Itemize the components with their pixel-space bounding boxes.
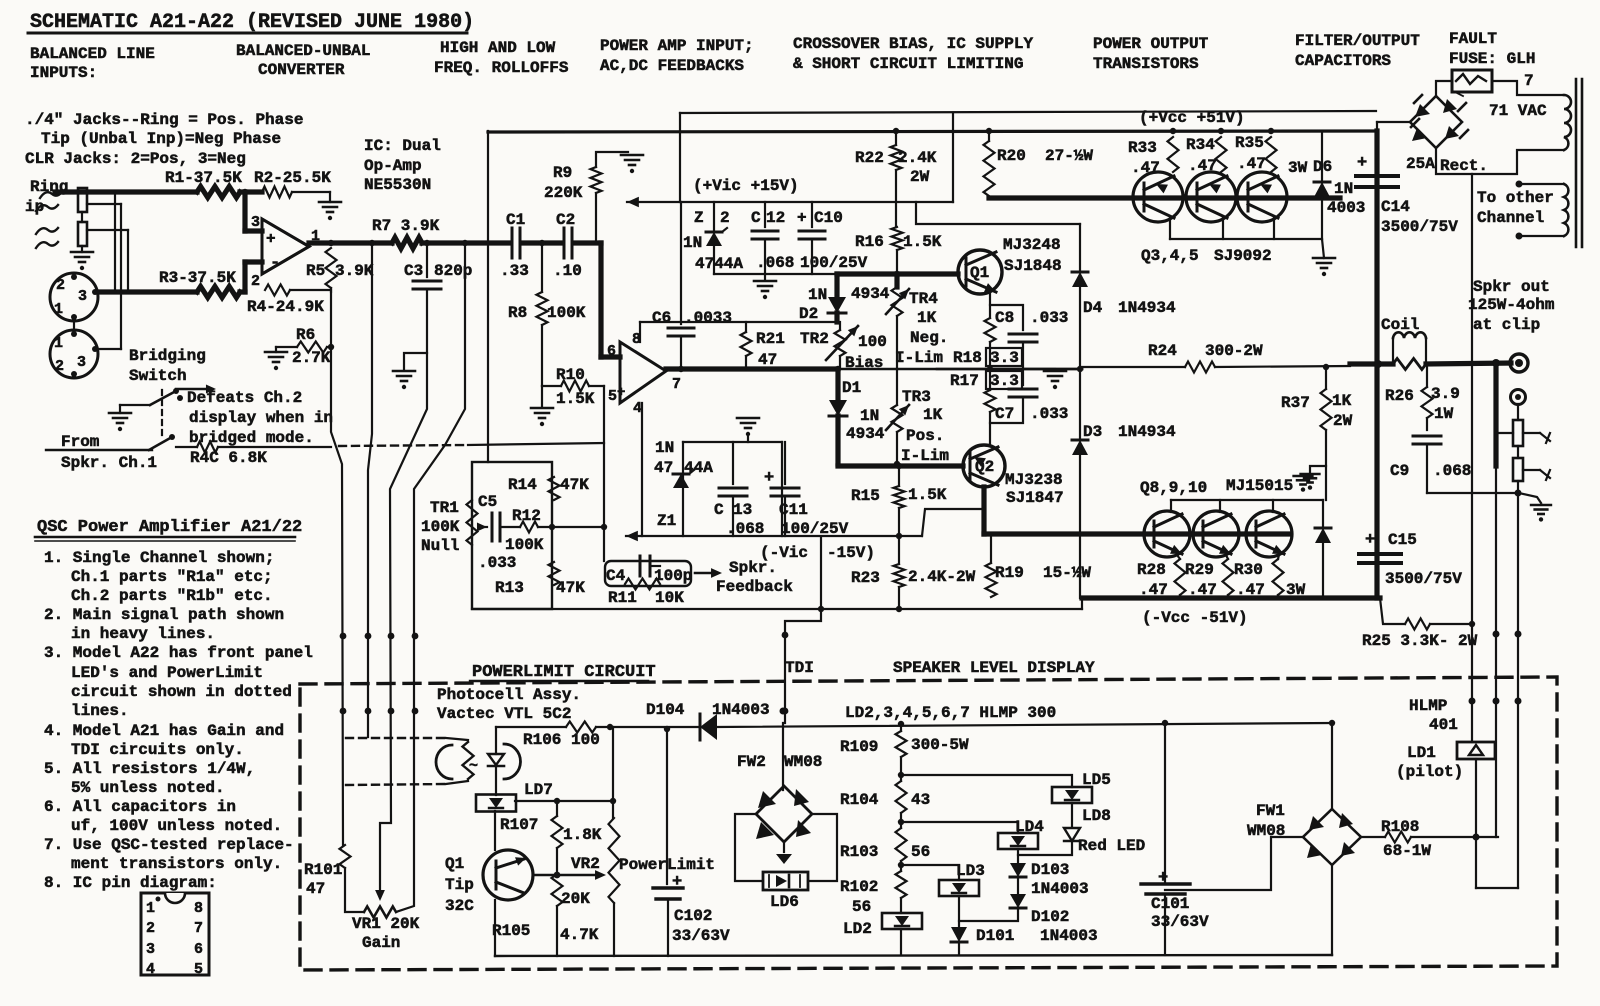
svg-text:C3: C3: [404, 262, 423, 280]
svg-text:R34: R34: [1186, 136, 1215, 154]
svg-text:LD3: LD3: [956, 862, 985, 880]
svg-text:R12: R12: [512, 507, 541, 525]
svg-text:5% unless noted.: 5% unless noted.: [71, 779, 225, 797]
svg-text:C7: C7: [995, 405, 1014, 423]
svg-text:TR4: TR4: [909, 290, 938, 308]
svg-text:R22: R22: [855, 149, 884, 167]
svg-text:R9: R9: [553, 164, 572, 182]
svg-text:C5: C5: [478, 493, 497, 511]
svg-text:300-2W: 300-2W: [1205, 342, 1263, 360]
svg-text:15-½W: 15-½W: [1043, 564, 1091, 582]
svg-text:Neg.: Neg.: [910, 329, 948, 347]
svg-text:at clip: at clip: [1473, 316, 1540, 334]
svg-text:2W: 2W: [1333, 412, 1353, 430]
svg-text:R15: R15: [851, 487, 880, 505]
svg-text:CAPACITORS: CAPACITORS: [1295, 52, 1391, 70]
svg-text:display when in: display when in: [189, 409, 333, 427]
svg-text:R4-24.9K: R4-24.9K: [247, 298, 324, 316]
svg-text:+: +: [764, 469, 774, 488]
svg-text:in heavy lines.: in heavy lines.: [71, 625, 215, 643]
svg-text:Switch: Switch: [129, 367, 187, 385]
svg-text:CROSSOVER BIAS, IC SUPPLY: CROSSOVER BIAS, IC SUPPLY: [793, 35, 1033, 53]
svg-text:R24: R24: [1148, 342, 1177, 360]
svg-text:R20: R20: [997, 147, 1026, 165]
svg-text:TR1: TR1: [430, 499, 459, 517]
svg-text:27-½W: 27-½W: [1045, 147, 1093, 165]
svg-text:100K: 100K: [505, 536, 544, 554]
svg-text:TDI: TDI: [785, 659, 814, 677]
svg-text:Feedback: Feedback: [716, 578, 793, 596]
svg-text:D6: D6: [1313, 158, 1332, 176]
svg-text:.033: .033: [1030, 309, 1068, 327]
svg-text:68-1W: 68-1W: [1383, 842, 1431, 860]
svg-text:.033: .033: [478, 554, 516, 572]
svg-text:3: 3: [146, 941, 155, 958]
svg-text:R14: R14: [508, 476, 537, 494]
svg-text:R21: R21: [756, 330, 785, 348]
svg-text:Bias: Bias: [845, 354, 883, 372]
svg-text:3: 3: [251, 214, 260, 231]
svg-text:MJ15015: MJ15015: [1226, 477, 1293, 495]
svg-text:.47: .47: [1237, 155, 1266, 173]
svg-text:Op-Amp: Op-Amp: [364, 157, 422, 175]
svg-text:Q3,4,5: Q3,4,5: [1141, 247, 1199, 265]
svg-text:13: 13: [733, 501, 752, 519]
svg-text:1N4003: 1N4003: [1031, 880, 1089, 898]
svg-text:1N4003: 1N4003: [1040, 927, 1098, 945]
svg-text:R104: R104: [840, 791, 879, 809]
svg-text:R4C 6.8K: R4C 6.8K: [190, 449, 267, 467]
svg-text:(+Vcc +51V): (+Vcc +51V): [1139, 109, 1245, 127]
svg-text:4003: 4003: [1327, 199, 1365, 217]
svg-text:Bridging: Bridging: [129, 347, 206, 365]
svg-text:8: 8: [194, 900, 203, 917]
svg-text:R6: R6: [296, 326, 315, 344]
svg-text:.33: .33: [500, 262, 529, 280]
svg-text:HLMP: HLMP: [1409, 697, 1447, 715]
svg-text:7. Use QSC-tested replace-: 7. Use QSC-tested replace-: [44, 836, 294, 854]
svg-text:71 VAC: 71 VAC: [1489, 102, 1547, 120]
svg-text:~: ~: [469, 758, 478, 775]
svg-text:C2: C2: [556, 211, 575, 229]
svg-text:FREQ. ROLLOFFS: FREQ. ROLLOFFS: [434, 59, 569, 77]
svg-text:47K: 47K: [556, 579, 585, 597]
svg-text:Q8,9,10: Q8,9,10: [1140, 479, 1207, 497]
svg-text:AC,DC FEEDBACKS: AC,DC FEEDBACKS: [600, 57, 744, 75]
svg-text:C1: C1: [506, 211, 525, 229]
svg-text:+: +: [672, 873, 682, 892]
svg-text:Spkr out: Spkr out: [1473, 278, 1550, 296]
svg-text:D3: D3: [1083, 423, 1102, 441]
svg-text:FW1: FW1: [1256, 802, 1285, 820]
svg-text:.068: .068: [756, 254, 794, 272]
svg-text:Photocell Assy.: Photocell Assy.: [437, 686, 581, 704]
svg-text:2: 2: [146, 920, 155, 937]
svg-text:TRANSISTORS: TRANSISTORS: [1093, 55, 1199, 73]
svg-text:+: +: [797, 209, 807, 227]
svg-text:4: 4: [633, 400, 642, 417]
svg-text:R18: R18: [953, 349, 982, 367]
svg-text:R10: R10: [556, 366, 585, 384]
svg-text:1: 1: [146, 900, 155, 917]
svg-text:.033: .033: [1030, 405, 1068, 423]
svg-text:R2-25.5K: R2-25.5K: [254, 169, 331, 187]
svg-text:3.9K: 3.9K: [335, 262, 374, 280]
svg-text:R102: R102: [840, 878, 878, 896]
svg-text:Ch.2 parts "R1b" etc.: Ch.2 parts "R1b" etc.: [71, 587, 273, 605]
svg-text:LD2: LD2: [843, 920, 872, 938]
svg-text:47: 47: [654, 459, 673, 477]
svg-text:5. All resistors 1/4W,: 5. All resistors 1/4W,: [44, 760, 255, 778]
svg-text:R33: R33: [1128, 139, 1157, 157]
svg-text:POWER OUTPUT: POWER OUTPUT: [1093, 35, 1209, 53]
svg-text:+: +: [617, 385, 625, 401]
svg-text:33/63V: 33/63V: [672, 927, 730, 945]
svg-text:100K: 100K: [547, 304, 586, 322]
svg-text:SJ9092: SJ9092: [1214, 247, 1272, 265]
svg-text:Pos.: Pos.: [906, 427, 944, 445]
svg-text:7: 7: [194, 920, 203, 937]
svg-text:R3-37.5K: R3-37.5K: [159, 269, 236, 287]
svg-text:1.5K: 1.5K: [903, 233, 942, 251]
svg-text:+: +: [266, 230, 276, 248]
svg-text:4934: 4934: [851, 285, 890, 303]
svg-text:R103: R103: [840, 843, 878, 861]
svg-text:VR2: VR2: [571, 855, 600, 873]
svg-text:2.4K: 2.4K: [898, 149, 937, 167]
svg-text:.10: .10: [553, 262, 582, 280]
svg-text:1N: 1N: [1334, 180, 1353, 198]
svg-text:D4: D4: [1083, 299, 1103, 317]
svg-text:LD2,3,4,5,6,7 HLMP 300: LD2,3,4,5,6,7 HLMP 300: [845, 704, 1056, 722]
svg-text:TR2: TR2: [800, 330, 829, 348]
svg-text:56: 56: [852, 898, 871, 916]
svg-text:D104: D104: [646, 701, 685, 719]
svg-text:2: 2: [56, 277, 65, 294]
svg-text:C11: C11: [779, 501, 808, 519]
svg-text:1. Single Channel shown;: 1. Single Channel shown;: [44, 549, 274, 567]
svg-text:D2: D2: [799, 305, 818, 323]
svg-text:Q1: Q1: [970, 264, 989, 282]
svg-text:3.3: 3.3: [990, 349, 1019, 367]
svg-text:-: -: [270, 254, 280, 273]
svg-text:300-5W: 300-5W: [911, 736, 969, 754]
svg-text:Spkr. Ch.1: Spkr. Ch.1: [61, 454, 157, 472]
svg-text:1N: 1N: [655, 439, 674, 457]
svg-text:C: C: [751, 209, 761, 227]
svg-text:1.5K: 1.5K: [556, 390, 595, 408]
svg-text:(+Vic +15V): (+Vic +15V): [693, 177, 799, 195]
svg-text:125W-4ohm: 125W-4ohm: [1468, 296, 1555, 314]
svg-text:R13: R13: [495, 579, 524, 597]
svg-text:POWERLIMIT CIRCUIT: POWERLIMIT CIRCUIT: [472, 663, 656, 682]
svg-text:C102: C102: [674, 907, 712, 925]
svg-text:2.4K-2W: 2.4K-2W: [908, 568, 976, 586]
svg-text:47: 47: [306, 880, 325, 898]
svg-text:820p: 820p: [434, 262, 472, 280]
svg-text:R106 100: R106 100: [523, 731, 600, 749]
svg-text:FILTER/OUTPUT: FILTER/OUTPUT: [1295, 32, 1420, 50]
svg-text:43: 43: [911, 791, 930, 809]
svg-text:6. All capacitors in: 6. All capacitors in: [44, 798, 236, 816]
svg-text:2: 2: [55, 358, 64, 375]
svg-text:100K: 100K: [421, 518, 460, 536]
svg-text:Z: Z: [694, 209, 704, 227]
svg-text:MJ3238: MJ3238: [1005, 471, 1063, 489]
svg-text:100/25V: 100/25V: [800, 254, 868, 272]
svg-text:1N4934: 1N4934: [1118, 423, 1176, 441]
svg-text:Tip: Tip: [445, 876, 474, 894]
svg-text:+: +: [1365, 531, 1375, 550]
svg-text:SJ1847: SJ1847: [1006, 489, 1064, 507]
svg-text:FAULT: FAULT: [1449, 30, 1497, 48]
svg-text:C14: C14: [1381, 198, 1410, 216]
svg-text:R30: R30: [1234, 561, 1263, 579]
svg-text:R5: R5: [306, 262, 325, 280]
svg-text:5: 5: [194, 961, 203, 978]
svg-text:4744A: 4744A: [695, 255, 743, 273]
svg-text:R28: R28: [1137, 561, 1166, 579]
svg-text:R25 3.3K- 2W: R25 3.3K- 2W: [1362, 632, 1478, 650]
svg-text:SPEAKER LEVEL DISPLAY: SPEAKER LEVEL DISPLAY: [893, 659, 1095, 677]
svg-text:3500/75V: 3500/75V: [1385, 570, 1462, 588]
svg-text:ment transistors only.: ment transistors only.: [71, 855, 282, 873]
svg-text:R107: R107: [500, 816, 538, 834]
svg-text:3: 3: [77, 354, 86, 371]
svg-text:I-Lim: I-Lim: [895, 349, 943, 367]
svg-text:WM08: WM08: [784, 753, 822, 771]
svg-text:C10: C10: [814, 209, 843, 227]
svg-text:INPUTS:: INPUTS:: [30, 64, 97, 82]
svg-text:LD4: LD4: [1015, 818, 1044, 836]
svg-text:2: 2: [251, 273, 260, 290]
svg-text:1K: 1K: [1332, 392, 1352, 410]
svg-text:3500/75V: 3500/75V: [1381, 218, 1458, 236]
svg-text:Null: Null: [421, 537, 459, 555]
svg-text:47K: 47K: [560, 476, 589, 494]
svg-text:R19: R19: [995, 564, 1024, 582]
svg-text:lines.: lines.: [71, 702, 129, 720]
svg-text:1.8K: 1.8K: [563, 826, 602, 844]
svg-text:3W: 3W: [1288, 159, 1308, 177]
svg-text:R37: R37: [1281, 394, 1310, 412]
svg-text:.0033: .0033: [684, 309, 732, 327]
svg-text:./4" Jacks--Ring = Pos. Phase: ./4" Jacks--Ring = Pos. Phase: [25, 111, 303, 129]
svg-text:I-Lim: I-Lim: [901, 447, 949, 465]
svg-text:Red LED: Red LED: [1078, 837, 1145, 855]
svg-text:Gain: Gain: [362, 934, 400, 952]
svg-text:uf, 100V unless noted.: uf, 100V unless noted.: [71, 817, 282, 835]
svg-text:220K: 220K: [544, 184, 583, 202]
svg-text:R23: R23: [851, 569, 880, 587]
svg-text:56: 56: [911, 843, 930, 861]
svg-text:1N: 1N: [808, 286, 827, 304]
svg-text:C8: C8: [995, 309, 1014, 327]
svg-text:33/63V: 33/63V: [1151, 913, 1209, 931]
svg-text:25A: 25A: [1406, 155, 1435, 173]
svg-text:32C: 32C: [445, 897, 474, 915]
svg-text:1: 1: [54, 301, 63, 318]
svg-text:Coil: Coil: [1381, 316, 1419, 334]
svg-text:IC: Dual: IC: Dual: [364, 137, 441, 155]
svg-text:10K: 10K: [655, 589, 684, 607]
svg-text:4934: 4934: [846, 425, 885, 443]
svg-text:-15V): -15V): [827, 544, 875, 562]
svg-text:4.7K: 4.7K: [560, 926, 599, 944]
svg-text:TR3: TR3: [902, 388, 931, 406]
svg-text:HIGH AND LOW: HIGH AND LOW: [440, 39, 556, 57]
svg-text:6: 6: [194, 941, 203, 958]
svg-text:1N4003: 1N4003: [712, 701, 770, 719]
svg-text:R11: R11: [608, 589, 637, 607]
svg-text:1W: 1W: [1434, 405, 1454, 423]
svg-text:C: C: [714, 501, 724, 519]
svg-text:POWER AMP INPUT;: POWER AMP INPUT;: [600, 37, 754, 55]
svg-text:1K: 1K: [923, 406, 943, 424]
svg-text:To other: To other: [1477, 189, 1554, 207]
svg-text:20K: 20K: [561, 890, 590, 908]
svg-text:BALANCED-UNBAL: BALANCED-UNBAL: [236, 42, 370, 60]
svg-text:D101: D101: [976, 927, 1014, 945]
svg-text:100: 100: [858, 333, 887, 351]
svg-text:D103: D103: [1031, 861, 1069, 879]
svg-text:401: 401: [1429, 716, 1458, 734]
svg-text:C101: C101: [1151, 895, 1189, 913]
svg-text:7: 7: [1524, 72, 1534, 90]
svg-text:C9: C9: [1390, 462, 1409, 480]
svg-text:LD5: LD5: [1082, 771, 1111, 789]
svg-text:D102: D102: [1031, 908, 1069, 926]
svg-text:3. Model A22 has front panel: 3. Model A22 has front panel: [44, 644, 313, 662]
svg-text:+: +: [1158, 869, 1168, 888]
svg-text:& SHORT CIRCUIT LIMITING: & SHORT CIRCUIT LIMITING: [793, 55, 1023, 73]
svg-text:BALANCED LINE: BALANCED LINE: [30, 45, 155, 63]
svg-text:C15: C15: [1388, 531, 1417, 549]
svg-text:R1-37.5K: R1-37.5K: [165, 169, 242, 187]
svg-text:3.9: 3.9: [1431, 385, 1460, 403]
svg-text:2W: 2W: [910, 168, 930, 186]
svg-text:R26: R26: [1385, 387, 1414, 405]
svg-text:12: 12: [766, 209, 785, 227]
svg-text:8. IC pin diagram:: 8. IC pin diagram:: [44, 874, 217, 892]
svg-text:3: 3: [78, 288, 87, 305]
svg-text:1N4934: 1N4934: [1118, 299, 1176, 317]
svg-text:R109: R109: [840, 738, 878, 756]
svg-text:Q1: Q1: [445, 855, 464, 873]
svg-text:4: 4: [146, 961, 155, 978]
svg-text:2. Main signal path shown: 2. Main signal path shown: [44, 606, 284, 624]
svg-text:1N: 1N: [860, 407, 879, 425]
svg-text:R16: R16: [855, 233, 884, 251]
svg-text:R108: R108: [1381, 818, 1419, 836]
svg-text:R105: R105: [492, 922, 530, 940]
svg-text:Z1: Z1: [657, 512, 676, 530]
svg-text:(pilot): (pilot): [1396, 763, 1463, 781]
svg-text:5: 5: [608, 388, 617, 405]
svg-text:R29: R29: [1185, 561, 1214, 579]
svg-text:C4: C4: [606, 567, 626, 585]
svg-text:1K: 1K: [917, 309, 937, 327]
svg-text:R17: R17: [950, 372, 979, 390]
svg-text:1N: 1N: [683, 234, 702, 252]
svg-text:7: 7: [672, 376, 681, 393]
svg-text:MJ3248: MJ3248: [1003, 236, 1061, 254]
svg-text:TDI circuits only.: TDI circuits only.: [71, 741, 244, 759]
svg-text:Rect.: Rect.: [1440, 157, 1488, 175]
svg-text:2: 2: [720, 209, 730, 227]
svg-text:SJ1848: SJ1848: [1004, 257, 1062, 275]
svg-text:LD6: LD6: [770, 893, 799, 911]
svg-text:R8: R8: [508, 304, 527, 322]
svg-text:R7 3.9K: R7 3.9K: [372, 217, 440, 235]
svg-text:4. Model A21 has Gain and: 4. Model A21 has Gain and: [44, 722, 284, 740]
svg-text:C6: C6: [652, 309, 671, 327]
svg-text:LD1: LD1: [1407, 744, 1436, 762]
svg-text:Defeats Ch.2: Defeats Ch.2: [187, 389, 302, 407]
svg-text:Channel: Channel: [1477, 209, 1544, 227]
svg-text:LED's and PowerLimit: LED's and PowerLimit: [71, 664, 263, 682]
svg-text:Vactec VTL 5C2: Vactec VTL 5C2: [437, 705, 571, 723]
svg-text:VR1 20K: VR1 20K: [352, 915, 420, 933]
svg-text:1.5K: 1.5K: [908, 486, 947, 504]
svg-text:circuit shown in dotted: circuit shown in dotted: [71, 683, 292, 701]
svg-text:CLR Jacks: 2=Pos, 3=Neg: CLR Jacks: 2=Pos, 3=Neg: [25, 150, 246, 168]
svg-text:R101: R101: [304, 861, 342, 879]
svg-text:LD7: LD7: [524, 781, 553, 799]
svg-text:.068: .068: [1433, 462, 1471, 480]
svg-text:R35: R35: [1235, 134, 1264, 152]
svg-text:QSC Power Amplifier A21/22: QSC Power Amplifier A21/22: [37, 518, 302, 537]
svg-text:LD8: LD8: [1082, 807, 1111, 825]
svg-text:Tip (Unbal Inp)=Neg Phase: Tip (Unbal Inp)=Neg Phase: [41, 130, 281, 148]
svg-text:+: +: [1357, 154, 1367, 173]
svg-text:FUSE: GLH: FUSE: GLH: [1449, 50, 1535, 68]
svg-text:FW2: FW2: [737, 753, 766, 771]
svg-text:(-Vcc -51V): (-Vcc -51V): [1142, 609, 1248, 627]
svg-text:Ch.1 parts "R1a" etc;: Ch.1 parts "R1a" etc;: [71, 568, 273, 586]
svg-text:47: 47: [758, 351, 777, 369]
svg-text:(-Vic: (-Vic: [760, 544, 808, 562]
svg-text:CONVERTER: CONVERTER: [258, 61, 345, 79]
svg-text:From: From: [61, 433, 100, 451]
svg-text:NE5530N: NE5530N: [364, 176, 431, 194]
svg-text:1: 1: [54, 335, 63, 352]
svg-text:D1: D1: [842, 379, 861, 397]
svg-text:3.3: 3.3: [990, 372, 1019, 390]
svg-text:SCHEMATIC A21-A22 (REVISED JUN: SCHEMATIC A21-A22 (REVISED JUNE 1980): [30, 11, 474, 34]
